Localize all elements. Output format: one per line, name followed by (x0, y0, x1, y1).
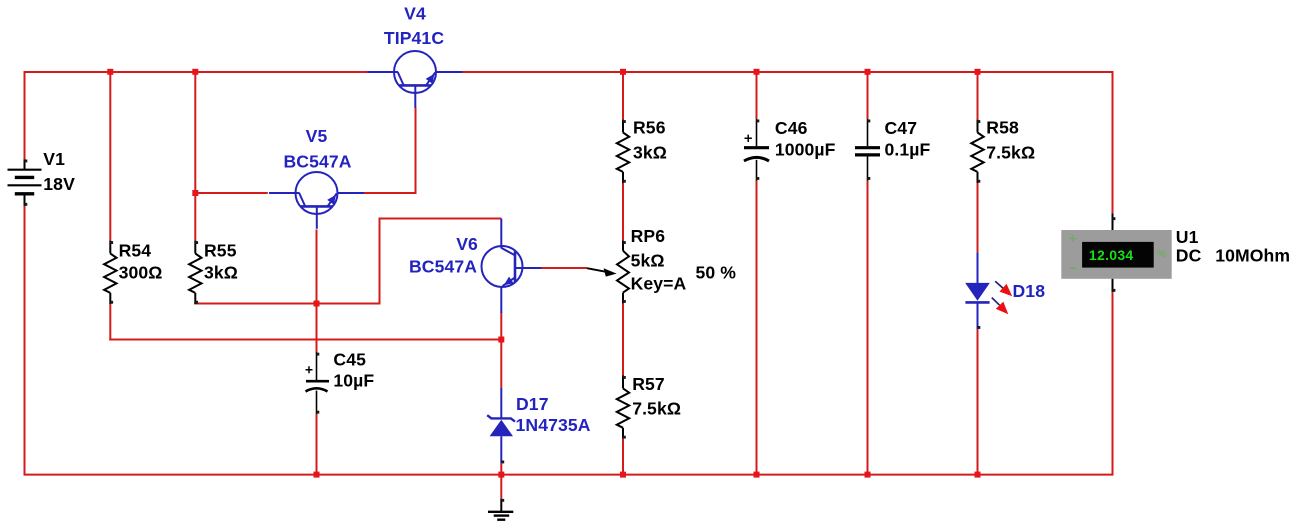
svg-text:BC547A: BC547A (409, 256, 477, 276)
svg-text:12.034: 12.034 (1089, 247, 1134, 263)
node junction top rail R55 (192, 69, 198, 75)
svg-text:U1: U1 (1176, 227, 1199, 247)
node junction bottom rail R57 (620, 472, 626, 478)
wire R58/D18 branch (977, 71, 979, 476)
wire C45 leads (316, 304, 318, 476)
node junction top rail C46 (754, 69, 760, 75)
wire V5 emitter to V4 base (363, 108, 417, 195)
svg-text:V1: V1 (43, 149, 65, 169)
node junction top rail C47 (865, 69, 871, 75)
svg-text:C46: C46 (775, 118, 808, 138)
node junction bottom rail ground (498, 472, 504, 478)
svg-text:R55: R55 (204, 240, 237, 260)
potentiometer RP6 5k Key=A (587, 226, 736, 303)
resistor R57 7.5kohm (617, 374, 681, 439)
svg-text:DC: DC (1176, 246, 1202, 266)
node junction V5 base row (314, 301, 320, 307)
svg-text:V6: V6 (456, 234, 478, 254)
node junction V6 emitter / R54 row (498, 337, 504, 343)
wire ground stub (500, 475, 502, 499)
wire C47 branch (867, 71, 869, 476)
transistor V5 BC547A (driver) (269, 126, 364, 229)
multimeter U1 (DC 10MOhm, reading 12.034) (1061, 214, 1290, 293)
svg-text:Key=A: Key=A (631, 273, 687, 293)
svg-text:TIP41C: TIP41C (384, 28, 444, 48)
svg-text:5kΩ: 5kΩ (631, 250, 665, 270)
svg-text:V5: V5 (306, 126, 328, 146)
svg-text:50 %: 50 % (696, 263, 737, 283)
node junction top rail R54 (107, 69, 113, 75)
zener diode D17 1N4735A (487, 388, 591, 464)
wire bottom rail (ground net) (24, 206, 1114, 476)
svg-text:1000µF: 1000µF (775, 140, 836, 160)
LED D18 (blue diode symbol with red emission arrows) (965, 252, 1045, 329)
wire top rail right (regulated output) (462, 71, 1113, 214)
svg-text:R56: R56 (633, 117, 666, 137)
svg-text:D18: D18 (1013, 281, 1046, 301)
svg-text:7.5kΩ: 7.5kΩ (986, 142, 1035, 162)
svg-text:18V: 18V (43, 174, 75, 194)
wire V5 base node row to V6 collector (317, 218, 502, 305)
svg-text:R57: R57 (632, 374, 665, 394)
wire top rail left (18V unregulated) (25, 71, 368, 159)
wire R54 branch (109, 71, 501, 341)
resistor R58 7.5kohm (971, 117, 1035, 183)
svg-text:R58: R58 (986, 117, 1019, 137)
svg-text:BC547A: BC547A (283, 152, 351, 172)
wire V6 base to potentiometer wiper (542, 267, 588, 269)
wire R56/RP6/R57 divider branch (622, 71, 624, 476)
transistor V6 BC547A (error amplifier, collector up / base right / emitter down) (409, 219, 542, 314)
node junction top rail R58 (975, 69, 981, 75)
node junction bottom rail C47 (865, 472, 871, 478)
svg-text:C47: C47 (885, 118, 918, 138)
capacitor C47 0.1uF (855, 118, 930, 181)
svg-text:RP6: RP6 (631, 226, 666, 246)
capacitor C45 10uF (polarized) (306, 350, 375, 415)
svg-text:300Ω: 300Ω (119, 262, 163, 282)
capacitor C46 1000uF (polarized) (744, 118, 836, 181)
wire V6 emitter / zener node (500, 313, 502, 476)
svg-text:R54: R54 (119, 240, 152, 260)
node junction bottom rail C46 (754, 472, 760, 478)
battery V1 18V (8, 149, 76, 206)
resistor R56 3kohm (617, 117, 667, 183)
svg-text:10µF: 10µF (333, 371, 374, 391)
svg-text:3kΩ: 3kΩ (633, 142, 667, 162)
svg-text:10MOhm: 10MOhm (1215, 246, 1290, 266)
wire V5 collector to R55 node (195, 192, 267, 194)
svg-text:7.5kΩ: 7.5kΩ (632, 398, 681, 418)
resistor R54 300ohm (104, 240, 162, 304)
svg-text:%: % (1157, 248, 1167, 260)
node junction top rail R56 (620, 69, 626, 75)
svg-text:0.1µF: 0.1µF (885, 140, 931, 160)
node junction R55/V5 collector (192, 190, 198, 196)
ground symbol (488, 498, 513, 519)
transistor V4 TIP41C (NPN series pass) (368, 4, 463, 108)
svg-text:C45: C45 (333, 350, 366, 370)
svg-text:V4: V4 (404, 4, 426, 24)
svg-text:1N4735A: 1N4735A (516, 415, 591, 435)
wire R55 branch (194, 71, 316, 305)
svg-text:3kΩ: 3kΩ (204, 262, 238, 282)
wire C46 branch (756, 71, 758, 476)
resistor R55 3kohm (189, 240, 238, 304)
node junction bottom rail D18 (975, 472, 981, 478)
svg-text:D17: D17 (516, 394, 549, 414)
node junction bottom rail C45 (314, 472, 320, 478)
